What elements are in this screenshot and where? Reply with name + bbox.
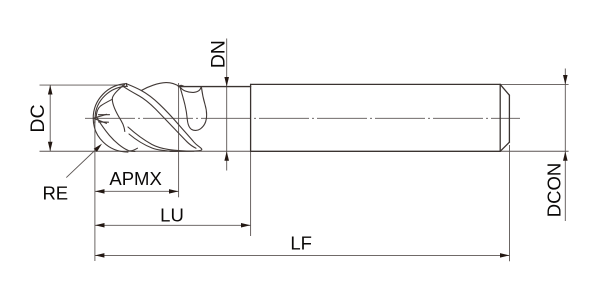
svg-text:DCON: DCON bbox=[544, 163, 565, 217]
DCON dimension line bbox=[564, 69, 566, 222]
dimension extension lines bbox=[40, 83, 569, 261]
APMX dimension line bbox=[95, 190, 179, 192]
pocket under neck line bbox=[180, 87, 201, 93]
DC bottom arrow bbox=[48, 142, 53, 152]
flute land edge D2 bbox=[124, 87, 196, 148]
APMX right extension bbox=[178, 83, 180, 197]
ball outer arc bbox=[93, 84, 128, 152]
shank bottom edge bbox=[251, 150, 501, 152]
LF right arrow bbox=[500, 253, 510, 258]
heel curve from tip bbox=[97, 118, 135, 152]
LU left arrow bbox=[95, 223, 105, 228]
LF right extension bbox=[509, 145, 511, 261]
shank chamfer start edge bbox=[499, 84, 501, 151]
svg-text:RE: RE bbox=[42, 183, 68, 204]
DCON bottom arrow bbox=[563, 151, 568, 161]
tip gash diagonal lower bbox=[94, 118, 107, 123]
bottom sliver curve 2 bbox=[129, 134, 176, 151]
shank right end edge bbox=[508, 95, 510, 142]
gash fork branch to tip bbox=[96, 99, 112, 116]
shank top edge bbox=[251, 83, 501, 85]
neck top edge bbox=[179, 86, 251, 88]
cutter head bbox=[93, 83, 206, 152]
ball margin arc (rim pair) bbox=[95, 86, 128, 123]
DCON top extension bbox=[500, 83, 568, 85]
svg-text:APMX: APMX bbox=[109, 168, 161, 189]
gash face curve bbox=[112, 84, 125, 131]
leaf flute outline bbox=[180, 87, 207, 131]
APMX right arrow bbox=[169, 189, 179, 194]
LU right arrow bbox=[241, 223, 251, 228]
DC top extension bbox=[40, 84, 126, 86]
DCON bottom extension bbox=[500, 150, 568, 152]
LF dimension line bbox=[95, 254, 510, 256]
top lobe silhouette bbox=[141, 83, 179, 91]
svg-text:LF: LF bbox=[290, 233, 312, 254]
RE leader arrow bbox=[94, 144, 102, 152]
LU dimension line bbox=[95, 224, 251, 226]
LF left arrow bbox=[95, 253, 105, 258]
APMX left arrow bbox=[95, 189, 105, 194]
vertex end-face tick bbox=[125, 83, 127, 86]
dimension lines bbox=[50, 39, 565, 256]
shank outline bbox=[179, 84, 509, 151]
tip gash horizontal upper bbox=[99, 114, 110, 116]
bottom sliver curve 1 bbox=[128, 127, 194, 151]
svg-text:LU: LU bbox=[160, 205, 184, 226]
DCON top arrow bbox=[563, 75, 568, 85]
DN dimension line bbox=[226, 39, 228, 171]
svg-text:DC: DC bbox=[27, 104, 49, 132]
DC bottom extension + neck bottom merged bbox=[40, 150, 251, 152]
tip gash horizontal lower bbox=[99, 121, 109, 123]
DN bottom arrow bbox=[224, 151, 229, 161]
DN top arrow bbox=[224, 77, 229, 87]
svg-text:DN: DN bbox=[208, 40, 230, 68]
shank chamfer bottom bbox=[500, 142, 509, 151]
bottom cusp bbox=[131, 148, 138, 151]
tip gash diagonal upper bbox=[94, 114, 107, 118]
small hump on neck line bbox=[178, 85, 184, 86]
shank chamfer top bbox=[500, 84, 509, 95]
flute land edge D1 bbox=[127, 84, 202, 152]
LU right extension bbox=[250, 151, 252, 236]
LF left extension bbox=[94, 120, 96, 262]
DC top arrow bbox=[48, 85, 53, 95]
wire centerline bbox=[85, 117, 520, 119]
RE leader line bbox=[66, 147, 99, 178]
arrowheads bbox=[48, 75, 568, 258]
DC dimension line bbox=[49, 85, 51, 151]
shank left edge bbox=[250, 84, 252, 151]
